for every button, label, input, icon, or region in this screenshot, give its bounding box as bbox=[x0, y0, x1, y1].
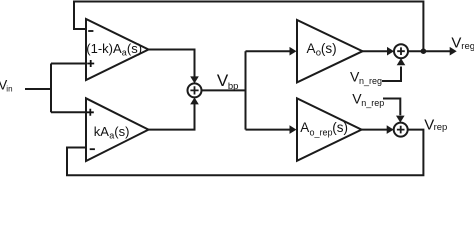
svg-text:(s): (s) bbox=[114, 124, 129, 139]
svg-text:(1-k)A: (1-k)A bbox=[86, 41, 122, 56]
svg-text:n_reg: n_reg bbox=[359, 76, 382, 86]
svg-text:A: A bbox=[300, 120, 309, 135]
svg-text:o_rep: o_rep bbox=[310, 127, 333, 137]
svg-text:bp: bp bbox=[228, 81, 239, 92]
svg-text:V: V bbox=[451, 35, 461, 52]
svg-text:rep: rep bbox=[434, 122, 448, 133]
svg-text:A: A bbox=[307, 41, 316, 56]
svg-text:n_rep: n_rep bbox=[361, 98, 384, 108]
svg-text:(s): (s) bbox=[127, 41, 142, 56]
svg-text:reg: reg bbox=[461, 41, 474, 52]
svg-text:(s): (s) bbox=[332, 120, 348, 135]
svg-text:(s): (s) bbox=[321, 41, 337, 56]
svg-text:in: in bbox=[6, 84, 12, 93]
svg-text:kA: kA bbox=[94, 124, 110, 139]
